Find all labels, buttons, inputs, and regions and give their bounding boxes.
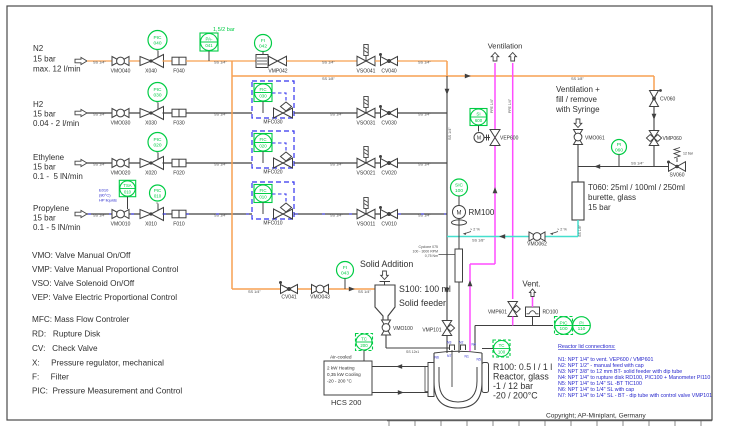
- wire CV040-collector: [398, 60, 448, 62]
- regulator X100: [140, 210, 151, 219]
- mass flow controller MFC020: [252, 131, 294, 168]
- svg-text:VMO030: VMO030: [111, 121, 131, 127]
- valve VMP101: [442, 321, 452, 336]
- svg-text:CV041: CV041: [281, 295, 297, 301]
- wire HCS supply: [372, 366, 428, 368]
- check valve CV041: [281, 285, 298, 294]
- svg-text:SS 1/4": SS 1/4": [93, 113, 106, 117]
- svg-text:max. 12 l/min: max. 12 l/min: [33, 65, 81, 74]
- title block top edge: [387, 420, 712, 422]
- wire CV060 column: [653, 90, 655, 167]
- burette T060: [572, 182, 584, 220]
- reactor left flange: [428, 363, 434, 397]
- svg-text:CV040: CV040: [381, 69, 397, 75]
- mass flow controller MFC010: [252, 182, 294, 219]
- svg-text:VMO062: VMO062: [527, 242, 547, 248]
- instrument PI 110: [573, 317, 591, 335]
- wire inlet row 4: [87, 213, 112, 215]
- valve VSO011: [357, 209, 375, 219]
- svg-text:fill / remove: fill / remove: [556, 95, 597, 104]
- svg-text:CV020: CV020: [381, 171, 397, 177]
- regulator X400: [140, 57, 151, 66]
- svg-text:SS 1/4": SS 1/4": [448, 127, 452, 140]
- instrument PIC 040: [156, 50, 158, 51]
- svg-text:SS 1/8": SS 1/8": [322, 77, 335, 81]
- regulator X200: [140, 159, 151, 168]
- svg-text:H2: H2: [33, 100, 44, 109]
- svg-text:N2: N2: [33, 44, 44, 53]
- svg-text:020: 020: [259, 144, 267, 149]
- wire CV020-collector: [398, 162, 448, 164]
- svg-text:15 bar: 15 bar: [33, 214, 56, 223]
- instrument FI 042: [255, 35, 272, 52]
- svg-text:VSO011: VSO011: [357, 222, 376, 228]
- svg-text:SS 1/4": SS 1/4": [214, 61, 227, 65]
- svg-text:0.1 - 5 lN/min: 0.1 - 5 lN/min: [33, 172, 83, 181]
- svg-text:Cyclone 075: Cyclone 075: [419, 245, 439, 249]
- svg-text:FIC: FIC: [259, 87, 266, 92]
- wire inlet row 2: [87, 112, 112, 114]
- wire solids line: [232, 288, 375, 290]
- svg-text:N5: N5: [477, 358, 481, 362]
- valve VMO043: [312, 285, 329, 294]
- svg-text:SS 1/4": SS 1/4": [358, 290, 371, 294]
- svg-text:Propylene: Propylene: [33, 204, 70, 213]
- instrument TC 200: [356, 334, 373, 351]
- gas inlet arrow row 1: [75, 57, 87, 64]
- svg-text:SS 1/8": SS 1/8": [472, 239, 485, 243]
- svg-text:VMO043: VMO043: [310, 295, 330, 301]
- heater HCS 200: [324, 361, 372, 395]
- svg-text:SS 1/4": SS 1/4": [322, 61, 335, 65]
- wire VSO-CV row 1: [375, 60, 381, 62]
- svg-text:PI: PI: [617, 142, 622, 148]
- svg-text:041: 041: [205, 43, 213, 48]
- reactor R100 vessel: [434, 353, 482, 408]
- instrument PA- 041: [200, 33, 218, 51]
- svg-text:HP liquids: HP liquids: [99, 198, 117, 203]
- propylene blue dashes: [88, 213, 111, 215]
- svg-text:F: Filter: F: Filter: [32, 373, 69, 382]
- valve VMO040: [112, 57, 129, 66]
- valve VMO062: [529, 232, 545, 241]
- svg-text:T060: 25ml / 100ml / 250ml: T060: 25ml / 100ml / 250ml: [588, 183, 685, 192]
- vent arrow 1: [491, 53, 499, 62]
- svg-text:Reactor lid connections:: Reactor lid connections:: [558, 344, 616, 350]
- instrument SI 600: [470, 109, 487, 126]
- svg-text:010: 010: [154, 194, 162, 199]
- svg-text:VMO040: VMO040: [111, 69, 131, 75]
- svg-text:N7: NPT 1/4" to 1/4" SL - BT -: N7: NPT 1/4" to 1/4" SL - BT - dip tube …: [558, 393, 712, 399]
- svg-text:X020: X020: [145, 171, 157, 177]
- svg-text:040: 040: [153, 41, 161, 47]
- nozzle N2 stub: [461, 345, 466, 350]
- svg-text:SS 1/4": SS 1/4": [330, 214, 343, 218]
- instrument FI 043: [337, 262, 354, 279]
- svg-text:PIC: PIC: [154, 87, 163, 93]
- svg-text:010: 010: [124, 190, 132, 195]
- wire VMO030-X300: [129, 112, 140, 114]
- filter F020: [172, 159, 186, 167]
- svg-text:Ventilation +: Ventilation +: [556, 85, 600, 94]
- svg-text:CV: Check Valve: CV: Check Valve: [32, 344, 98, 353]
- svg-text:0,75 Nm: 0,75 Nm: [425, 254, 438, 258]
- wire gas collector: [446, 76, 448, 321]
- check valve CV030: [381, 109, 398, 118]
- valve VSO031: [357, 108, 375, 118]
- svg-text:VMO010: VMO010: [111, 222, 131, 228]
- svg-text:F030: F030: [173, 121, 185, 127]
- svg-text:F010: F010: [173, 222, 185, 228]
- svg-text:RD100: RD100: [543, 310, 559, 316]
- svg-text:CV030: CV030: [381, 121, 397, 127]
- check valve CV060: [650, 91, 659, 107]
- wire VSO-CV row 2: [375, 112, 381, 114]
- relief valve SV060: [669, 162, 686, 172]
- wire feeder-reactor: [385, 335, 387, 348]
- svg-text:15 bar: 15 bar: [588, 203, 611, 212]
- svg-text:2 kW Heating: 2 kW Heating: [327, 366, 355, 371]
- svg-text:PIC: PIC: [154, 188, 161, 193]
- wire VMO040-X400: [129, 60, 140, 62]
- svg-text:SI: SI: [476, 112, 480, 117]
- svg-text:100 - 3000 RPM: 100 - 3000 RPM: [413, 250, 439, 254]
- svg-text:SS 1/4": SS 1/4": [418, 113, 431, 117]
- valve VMP601: [508, 302, 518, 317]
- svg-text:F020: F020: [173, 171, 185, 177]
- wire VSO-CV row 3: [375, 162, 381, 164]
- svg-text:0.1 - 5 lN/min: 0.1 - 5 lN/min: [33, 223, 81, 232]
- svg-text:X040: X040: [145, 69, 157, 75]
- svg-text:RD: Rupture Disk: RD: Rupture Disk: [32, 330, 101, 339]
- instrument TSA 010: [119, 180, 135, 196]
- svg-text:VSO041: VSO041: [357, 69, 376, 75]
- svg-text:SS 1/4": SS 1/4": [248, 290, 261, 294]
- instrument PI 060: [612, 140, 627, 155]
- svg-text:PIC: PIC: [154, 137, 163, 143]
- svg-text:PA-: PA-: [206, 37, 214, 42]
- vent stub: [532, 297, 534, 308]
- svg-text:-20 / 200°C: -20 / 200°C: [493, 391, 538, 401]
- svg-text:VMP: Valve Manual Proportional: VMP: Valve Manual Proportional Control: [32, 265, 179, 274]
- vent arrow small: [530, 289, 536, 297]
- valve VMO010: [112, 210, 129, 219]
- check valve CV010: [381, 210, 398, 219]
- svg-text:burette, glass: burette, glass: [588, 193, 636, 202]
- svg-text:VMO061: VMO061: [585, 136, 605, 142]
- svg-text:100: 100: [498, 350, 506, 355]
- svg-text:SS 1/4": SS 1/4": [330, 113, 343, 117]
- svg-text:SS 1/4": SS 1/4": [93, 61, 106, 65]
- svg-text:Ventilation: Ventilation: [488, 42, 523, 51]
- wire VMO010-X100: [129, 213, 140, 215]
- svg-text:CV010: CV010: [381, 222, 397, 228]
- valve VMO061: [574, 130, 583, 145]
- svg-text:030: 030: [153, 93, 161, 99]
- svg-text:020: 020: [153, 143, 161, 149]
- vent arrow 2: [509, 53, 517, 62]
- filter F030: [172, 109, 186, 117]
- wire inlet row 3: [87, 162, 112, 164]
- svg-text:TSA: TSA: [123, 183, 131, 188]
- valve VMP042: [256, 55, 268, 68]
- svg-text:HCS 200: HCS 200: [331, 398, 361, 407]
- svg-text:0.04 - 2 l/min: 0.04 - 2 l/min: [33, 119, 79, 128]
- svg-text:MFC: Mass Flow Controler: MFC: Mass Flow Controler: [32, 315, 130, 324]
- svg-text:> 2 %: > 2 %: [557, 228, 567, 232]
- svg-text:Copyright; AP-Miniplant, Germa: Copyright; AP-Miniplant, Germany: [546, 413, 646, 420]
- svg-text:M: M: [477, 136, 481, 142]
- svg-text:M: M: [457, 211, 462, 217]
- wire vent line A: [494, 63, 496, 264]
- svg-text:042: 042: [259, 44, 267, 50]
- wire CV030-collector: [398, 112, 448, 114]
- svg-text:15 bar: 15 bar: [33, 110, 56, 119]
- instrument PIC 100: [555, 317, 573, 335]
- wire N2 branch down: [231, 61, 233, 289]
- svg-text:PIC: Pressure Measurement and: PIC: Pressure Measurement and Control: [32, 387, 182, 396]
- wire MFC020-VSO021: [294, 162, 357, 164]
- svg-text:200: 200: [360, 343, 368, 348]
- wire syringe manifold: [578, 166, 669, 168]
- svg-text:SS 12x1: SS 12x1: [406, 350, 419, 354]
- svg-text:Ethylene: Ethylene: [33, 153, 65, 162]
- svg-text:010: 010: [259, 195, 267, 200]
- svg-text:VMP042: VMP042: [268, 69, 287, 75]
- valve VMO020: [112, 159, 129, 168]
- valve VEP600: [474, 133, 484, 143]
- wire N2 riser: [446, 61, 448, 76]
- svg-text:1,5/2 bar: 1,5/2 bar: [213, 27, 235, 33]
- svg-text:N1: N1: [465, 355, 469, 359]
- wire CV010-collector: [398, 213, 448, 215]
- valve VMO100: [382, 320, 391, 335]
- svg-text:VSO021: VSO021: [357, 171, 376, 177]
- wire F030-MFC030: [186, 112, 252, 114]
- svg-text:SS 1/4": SS 1/4": [93, 214, 106, 218]
- svg-text:SS 1/4": SS 1/4": [330, 163, 343, 167]
- gas inlet arrow row 3: [75, 159, 87, 166]
- svg-text:SS 1/4": SS 1/4": [631, 162, 644, 166]
- wire vent line A jog: [470, 263, 495, 265]
- motor RM100: [453, 206, 466, 219]
- svg-text:TC: TC: [499, 343, 505, 348]
- instrument TC 100: [493, 340, 510, 357]
- svg-text:043: 043: [341, 271, 349, 277]
- svg-text:110: 110: [578, 326, 586, 332]
- wire VMP042-VSO041: [287, 60, 358, 62]
- svg-text:S100: 100 ml: S100: 100 ml: [399, 284, 451, 294]
- gas inlet arrow row 2: [75, 109, 87, 116]
- wire cyan gas out: [447, 236, 578, 238]
- svg-text:MFC010: MFC010: [263, 221, 282, 227]
- svg-text:0,35 kW Cooling: 0,35 kW Cooling: [327, 372, 361, 377]
- wire X-F row 3: [163, 162, 173, 164]
- svg-text:VMP601: VMP601: [488, 310, 507, 316]
- gas inlet arrow row 4: [75, 210, 87, 217]
- svg-text:VMP101: VMP101: [422, 328, 441, 334]
- svg-text:Solid Addition: Solid Addition: [360, 259, 413, 269]
- filter F010: [172, 210, 186, 218]
- instrument PIC 030: [156, 102, 158, 103]
- svg-text:SS 1/4": SS 1/4": [93, 163, 106, 167]
- svg-text:Solid feeder: Solid feeder: [399, 298, 446, 308]
- svg-text:MFC020: MFC020: [263, 170, 282, 176]
- svg-text:F040: F040: [173, 69, 185, 75]
- feeder S100: [380, 281, 391, 283]
- svg-text:SV060: SV060: [669, 173, 684, 179]
- filter F040: [172, 57, 186, 65]
- nozzle N3 stub: [450, 345, 455, 350]
- svg-text:FI: FI: [261, 38, 265, 44]
- wire VMP101-lid dip tube: [446, 335, 448, 387]
- syringe arrow: [574, 119, 582, 128]
- svg-text:N4: N4: [472, 343, 476, 347]
- svg-text:VSO031: VSO031: [357, 121, 376, 127]
- svg-text:FI: FI: [343, 265, 347, 271]
- magnetic coupling: [455, 249, 463, 282]
- valve VSO021: [357, 158, 375, 168]
- svg-text:N2: N2: [459, 341, 463, 345]
- svg-text:VMP060: VMP060: [663, 136, 682, 142]
- svg-text:-20 - 200 °C: -20 - 200 °C: [327, 379, 352, 384]
- wire T060-cyan: [577, 220, 579, 237]
- wire VMO061-T060: [577, 145, 579, 183]
- svg-text:PFE 1/4": PFE 1/4": [490, 98, 494, 113]
- wire vent line B: [512, 63, 514, 299]
- valve VSO041: [357, 56, 375, 66]
- svg-text:12 bar: 12 bar: [683, 152, 694, 156]
- svg-text:VMO100: VMO100: [393, 326, 413, 332]
- svg-text:> 2 %: > 2 %: [470, 228, 480, 232]
- svg-text:SS 1/8": SS 1/8": [571, 77, 584, 81]
- svg-text:X010: X010: [145, 222, 157, 228]
- wire X-F row 1: [163, 60, 173, 62]
- wire MFC030-VSO1: [294, 112, 357, 114]
- stirrer shaft: [458, 219, 460, 399]
- rupture disk RD100: [526, 307, 540, 317]
- svg-text:X: Pressure regulator, mec: X: Pressure regulator, mechanical: [32, 359, 164, 368]
- svg-text:030: 030: [259, 94, 267, 99]
- svg-text:with Syringe: with Syringe: [555, 105, 600, 114]
- regulator X300: [140, 109, 151, 118]
- svg-text:Vent.: Vent.: [522, 280, 540, 289]
- svg-text:N6: N6: [435, 356, 439, 360]
- svg-text:VMO: Valve Manual On/Off: VMO: Valve Manual On/Off: [32, 251, 131, 260]
- valve VMO030: [112, 109, 129, 118]
- solid addition arrow: [381, 271, 389, 280]
- svg-text:X030: X030: [145, 121, 157, 127]
- svg-text:VMO020: VMO020: [111, 171, 131, 177]
- instrument PIC 020: [156, 152, 158, 153]
- svg-text:RM100: RM100: [469, 208, 495, 217]
- wire X-F row 4: [163, 213, 173, 215]
- wire F010-MFC010: [186, 213, 252, 215]
- wire VMO020-X200: [129, 162, 140, 164]
- wire VSO-CV row 4: [375, 213, 381, 215]
- wire inlet row 1: [87, 60, 112, 62]
- svg-text:600: 600: [475, 118, 483, 123]
- svg-text:100: 100: [455, 188, 463, 194]
- wire N2 header: [232, 75, 654, 77]
- wire lid manifold: [475, 325, 553, 327]
- svg-text:FIC: FIC: [259, 188, 266, 193]
- mass flow controller MFC030: [252, 81, 294, 118]
- reactor right flange: [482, 363, 489, 393]
- svg-text:-1 / 12 bar: -1 / 12 bar: [493, 381, 533, 391]
- svg-text:Reactor, glass: Reactor, glass: [493, 372, 549, 382]
- svg-text:FIC: FIC: [259, 137, 266, 142]
- svg-text:SS 1/4": SS 1/4": [418, 61, 431, 65]
- svg-text:SIC: SIC: [455, 182, 464, 188]
- svg-text:15 bar: 15 bar: [33, 163, 56, 172]
- svg-text:VEP: Valve Electric Proportion: VEP: Valve Electric Proportional Control: [32, 293, 177, 302]
- valve VMP060: [649, 131, 659, 146]
- svg-text:TC: TC: [361, 337, 367, 342]
- wire F020-MFC020: [186, 162, 252, 164]
- svg-text:N7: N7: [447, 354, 451, 358]
- check valve CV040: [381, 57, 398, 66]
- svg-text:SS 1/4": SS 1/4": [214, 163, 227, 167]
- wire X-F row 2: [163, 112, 173, 114]
- svg-text:VSO: Valve Solenoid On/Off: VSO: Valve Solenoid On/Off: [32, 279, 135, 288]
- svg-text:Air-cooled: Air-cooled: [330, 355, 352, 361]
- svg-text:MFC030: MFC030: [263, 120, 282, 126]
- check valve CV020: [381, 159, 398, 168]
- svg-text:SS 1/4": SS 1/4": [214, 113, 227, 117]
- instrument SIC 100: [451, 179, 468, 196]
- svg-text:PIC: PIC: [154, 35, 163, 41]
- svg-text:VEP600: VEP600: [500, 136, 519, 142]
- svg-text:100: 100: [559, 326, 567, 332]
- svg-text:SS 1/4": SS 1/4": [418, 214, 431, 218]
- instrument PIC 010: [156, 203, 158, 204]
- svg-text:R100: 0.5 l / 1 l: R100: 0.5 l / 1 l: [493, 362, 552, 372]
- wire header drop right: [653, 76, 655, 90]
- svg-text:15 bar: 15 bar: [33, 55, 56, 64]
- svg-text:060: 060: [615, 148, 623, 154]
- wire F040-VMP042: [186, 60, 256, 62]
- svg-text:SS 1/4": SS 1/4": [418, 163, 431, 167]
- svg-text:PFE 1/4": PFE 1/4": [508, 98, 512, 113]
- svg-text:CV060: CV060: [660, 97, 676, 103]
- svg-text:N3: N3: [447, 341, 451, 345]
- wire MFC010-VSO011: [294, 213, 357, 215]
- wire HCS return: [372, 392, 428, 394]
- svg-text:SS 1/8": SS 1/8": [578, 224, 582, 237]
